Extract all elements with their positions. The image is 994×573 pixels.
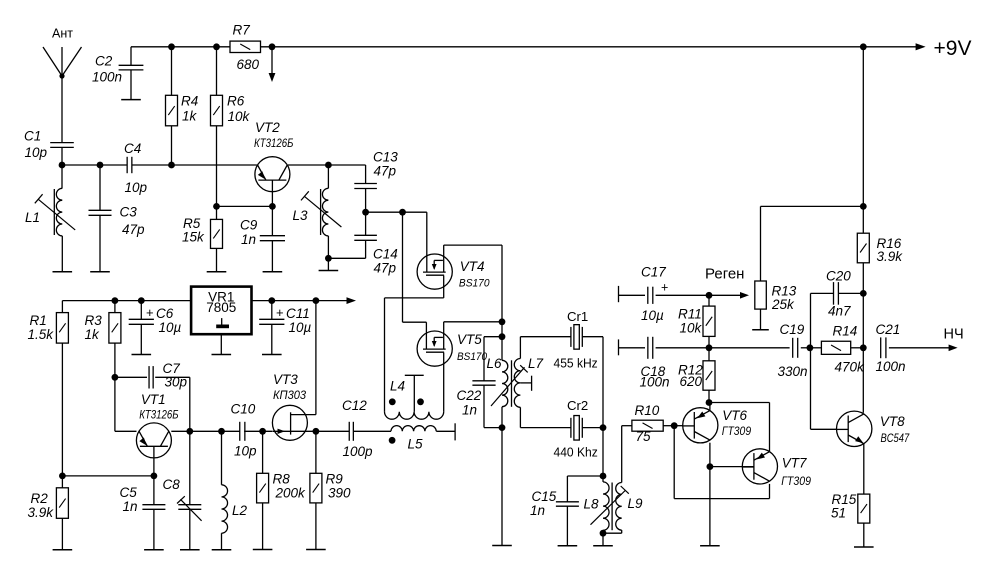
node R14 right — [860, 344, 867, 351]
ground drain column — [492, 545, 512, 547]
wire VT6 collector — [709, 443, 711, 546]
wire VT5 gate feed — [403, 212, 427, 349]
svg-text:1n: 1n — [241, 232, 256, 247]
label НЧ — [944, 327, 964, 343]
resistor R6 — [211, 47, 251, 207]
node +9 column R13 — [860, 203, 867, 210]
ground R15 — [854, 546, 874, 548]
svg-text:1k: 1k — [182, 109, 198, 124]
node C5 top — [151, 473, 158, 480]
capacitor C15 — [530, 489, 579, 546]
svg-text:C22: C22 — [457, 388, 482, 403]
node VT3 drain rail — [313, 297, 320, 304]
svg-text:Реген: Реген — [705, 266, 744, 283]
node C6 top — [138, 297, 145, 304]
wire VT1 collector row — [171, 430, 272, 432]
node C8 column — [186, 428, 193, 435]
transistor VT6 — [683, 408, 752, 443]
svg-text:НЧ: НЧ — [944, 327, 964, 343]
svg-text:КП303: КП303 — [273, 388, 306, 402]
transistor VT3 — [272, 372, 316, 440]
wire VT5 source — [443, 353, 445, 412]
transistor VT2 — [254, 120, 293, 192]
svg-text:VT2: VT2 — [255, 120, 280, 135]
svg-text:R7: R7 — [233, 23, 251, 38]
svg-text:VT6: VT6 — [722, 408, 747, 423]
resistor R2 — [28, 476, 69, 550]
svg-text:680: 680 — [237, 57, 260, 72]
svg-text:L8: L8 — [584, 497, 600, 512]
ground R8 — [253, 549, 273, 551]
node L8/L9 bottom — [600, 530, 607, 537]
wire R13 bottom — [760, 309, 762, 330]
capacitor C21 — [876, 322, 958, 374]
svg-text:3.9k: 3.9k — [28, 505, 55, 520]
svg-text:10p: 10p — [234, 444, 257, 459]
node VT6 emitter — [706, 399, 713, 406]
capacitor C5 — [120, 476, 166, 550]
svg-text:C21: C21 — [876, 322, 901, 337]
ground VR1 — [212, 354, 232, 356]
L8/L9 trimmer arrow — [591, 486, 629, 525]
node rail junction R4 — [168, 43, 175, 50]
ground L3 — [319, 270, 339, 272]
wire Cr2 bottom link — [520, 427, 570, 429]
node L2 tap — [218, 428, 225, 435]
svg-text:Cr2: Cr2 — [567, 398, 588, 413]
ground R2 — [53, 549, 73, 551]
node L3 top — [325, 162, 332, 169]
svg-text:L1: L1 — [25, 210, 40, 225]
svg-text:47p: 47p — [122, 222, 145, 237]
ground C2 — [121, 99, 141, 101]
capacitor C17 — [619, 265, 710, 324]
potentiometer arrow R13 — [709, 292, 749, 299]
node R14 left — [807, 344, 814, 351]
wire VT5 drain — [444, 322, 502, 350]
transistor VT4 — [417, 254, 490, 290]
capacitor C13 — [354, 150, 398, 213]
svg-text:R2: R2 — [31, 491, 49, 506]
ground R9 — [306, 549, 326, 551]
node C9 top — [269, 203, 276, 210]
resistor R5 — [182, 206, 223, 271]
label +9V — [916, 37, 972, 60]
ground L8 — [593, 545, 613, 547]
svg-text:1k: 1k — [85, 327, 101, 342]
node rail junction R6 — [213, 43, 220, 50]
svg-text:10k: 10k — [680, 321, 703, 336]
transistor VT8 — [837, 411, 911, 446]
svg-text:25k: 25k — [771, 297, 795, 312]
wire crystal loop top — [520, 336, 603, 338]
resistor R1 — [28, 313, 69, 476]
node R3/C7/VT1 — [112, 374, 119, 381]
wire VT1 base — [62, 458, 153, 476]
svg-text:Cr1: Cr1 — [567, 309, 588, 324]
wire VT8 emitter — [863, 443, 865, 494]
svg-text:C19: C19 — [780, 322, 805, 337]
svg-text:+: + — [276, 305, 284, 320]
ground C11 — [262, 354, 282, 356]
svg-text:L7: L7 — [528, 356, 544, 371]
svg-text:L6: L6 — [487, 356, 503, 371]
svg-text:L4: L4 — [390, 379, 405, 394]
svg-text:ГТ309: ГТ309 — [781, 474, 811, 488]
svg-text:R8: R8 — [273, 472, 291, 487]
svg-text:C20: C20 — [826, 269, 851, 284]
transformer winding L8 — [584, 476, 610, 546]
svg-text:620: 620 — [680, 374, 703, 389]
capacitor C11 — [259, 301, 311, 355]
wire C7 to C8 column — [189, 377, 191, 431]
transformer winding L6 — [487, 356, 508, 407]
wire R13 top — [761, 206, 864, 281]
node VT6 base — [671, 422, 678, 429]
svg-text:100n: 100n — [876, 359, 906, 374]
ground C8 — [180, 549, 200, 551]
node R5 top — [213, 203, 220, 210]
svg-text:100n: 100n — [92, 70, 122, 85]
capacitor C10 — [231, 402, 258, 459]
wire +9 column — [862, 47, 864, 233]
svg-text:10p: 10p — [25, 145, 48, 160]
transistor VT7 — [742, 449, 811, 488]
resistor R16 — [857, 233, 903, 293]
svg-text:30p: 30p — [165, 375, 188, 390]
capacitor C20 — [811, 269, 864, 319]
svg-text:C3: C3 — [120, 205, 138, 220]
svg-text:1.5k: 1.5k — [28, 327, 55, 342]
capacitor C7 — [115, 361, 190, 390]
svg-text:47p: 47p — [374, 164, 397, 179]
wire C12 to L5 — [354, 430, 391, 432]
trimmer capacitor C8 — [163, 431, 202, 550]
node C20 right — [860, 290, 867, 297]
node R1/R2 — [59, 473, 66, 480]
transistor VT1 — [136, 392, 178, 458]
svg-text:L3: L3 — [293, 208, 309, 223]
transformer winding L4 — [385, 379, 444, 420]
ground L1 — [53, 271, 73, 273]
resistor R14 — [810, 324, 865, 375]
node Cr2 right — [600, 424, 607, 431]
arrow from R7 node down — [269, 47, 276, 82]
wire Cr2 right — [583, 427, 604, 429]
ground L2 — [212, 549, 232, 551]
capacitor C14 — [328, 212, 397, 275]
crystal Cr1 — [554, 309, 598, 371]
crystal Cr2 — [554, 398, 598, 459]
ground C15 — [558, 545, 578, 547]
wire +9V rail — [131, 46, 917, 48]
transformer core L6/L7 — [511, 360, 513, 407]
antenna Ант — [43, 26, 82, 142]
resistor R15 — [831, 492, 870, 547]
node rail junction right column — [860, 43, 867, 50]
resistor R10 — [622, 403, 675, 444]
svg-text:1n: 1n — [530, 503, 545, 518]
transistor VT5 — [417, 331, 488, 366]
svg-text:470k: 470k — [835, 360, 866, 375]
svg-text:ГТ309: ГТ309 — [722, 424, 751, 438]
L6/L7 trimmer arrow — [491, 365, 528, 406]
wire VT4 source — [385, 276, 444, 412]
wire VT2 base node — [217, 192, 273, 207]
wire Cr2 node to C15 — [567, 476, 603, 502]
svg-text:L5: L5 — [408, 437, 424, 452]
svg-text:C1: C1 — [24, 128, 41, 143]
svg-text:VT4: VT4 — [460, 259, 485, 274]
resistor R8 — [257, 431, 306, 549]
resistor R3 — [85, 301, 121, 378]
transformer winding L7 — [514, 337, 543, 428]
resistor R11 — [678, 295, 715, 348]
capacitor C9 — [240, 206, 285, 271]
svg-text:+: + — [146, 305, 154, 320]
svg-text:440 Khz: 440 Khz — [554, 444, 598, 459]
ground R13 — [752, 329, 769, 331]
svg-text:Ант: Ант — [52, 26, 73, 40]
svg-text:VT5: VT5 — [457, 332, 482, 347]
node C13/C14 — [362, 209, 369, 216]
svg-text:C5: C5 — [120, 485, 138, 500]
terminal stub C18 — [618, 339, 620, 355]
svg-text:10µ: 10µ — [641, 308, 664, 323]
svg-text:+: + — [661, 281, 668, 295]
node rail junction R7 out — [269, 43, 276, 50]
L7 tap stub — [520, 376, 531, 391]
svg-text:3.9k: 3.9k — [877, 249, 904, 264]
ground C9 — [263, 271, 283, 273]
svg-text:R11: R11 — [678, 307, 702, 322]
svg-text:L2: L2 — [232, 503, 248, 518]
wire VT6 base lead — [674, 425, 683, 427]
svg-text:R10: R10 — [635, 403, 660, 418]
svg-text:R3: R3 — [85, 313, 103, 328]
ground R5 — [207, 271, 227, 273]
wire drain column — [501, 322, 503, 546]
svg-text:BS170: BS170 — [457, 351, 488, 363]
svg-text:C15: C15 — [532, 489, 557, 504]
svg-text:VT1: VT1 — [141, 392, 166, 407]
capacitor C22 — [457, 337, 503, 428]
terminal stub C17 — [618, 286, 620, 302]
svg-text:75: 75 — [636, 429, 652, 444]
wire VT7 collector — [674, 426, 769, 499]
ground C3 — [90, 271, 110, 273]
svg-text:1n: 1n — [123, 499, 138, 514]
inductor L2 — [222, 431, 248, 550]
svg-text:R9: R9 — [326, 472, 344, 487]
wire VT6 emitter — [709, 403, 711, 410]
node R3 top — [112, 297, 119, 304]
node R4 tap — [168, 162, 175, 169]
transformer winding L9 — [603, 483, 643, 534]
regulator VR1 — [191, 287, 251, 335]
wire VT4 drain — [444, 245, 502, 322]
capacitor C4 — [124, 141, 148, 195]
L5 phase dot — [389, 437, 396, 444]
transformer core L8/L9 — [611, 483, 613, 531]
node R11 top — [706, 292, 713, 299]
svg-text:C4: C4 — [124, 141, 141, 156]
wire VT8 collector column — [862, 293, 864, 412]
svg-text:L9: L9 — [628, 496, 644, 511]
svg-text:КТ3126Б: КТ3126Б — [254, 136, 293, 150]
node R9 top — [313, 428, 320, 435]
ground VT6 — [700, 545, 720, 547]
wire R10 left to L9 — [621, 426, 623, 483]
node C10/VT3 gate — [259, 428, 266, 435]
svg-text:390: 390 — [328, 486, 351, 501]
svg-text:BC547: BC547 — [881, 431, 911, 445]
svg-text:100p: 100p — [343, 444, 374, 459]
svg-text:10k: 10k — [228, 109, 251, 124]
svg-text:C13: C13 — [373, 150, 398, 165]
svg-text:200k: 200k — [275, 486, 307, 501]
ground C5 — [144, 549, 164, 551]
svg-text:C12: C12 — [342, 398, 367, 413]
potentiometer R13 — [755, 281, 797, 312]
wire VT3 row to C12 — [316, 430, 349, 432]
node L3 bottom — [325, 255, 332, 262]
svg-text:C14: C14 — [373, 247, 398, 262]
capacitor C1 — [24, 128, 74, 160]
capacitor C3 — [89, 165, 146, 272]
svg-text:BS170: BS170 — [459, 278, 490, 290]
svg-text:+9V: +9V — [934, 37, 972, 60]
resistor R12 — [678, 348, 715, 403]
svg-text:7805: 7805 — [206, 300, 236, 315]
resistor R9 — [310, 431, 351, 549]
node VT5 drain column — [499, 318, 506, 325]
L4 phase dot 2 — [417, 398, 424, 405]
svg-text:R14: R14 — [833, 324, 858, 339]
inductor L1 — [25, 188, 75, 271]
wire VT8 base column — [811, 293, 837, 429]
capacitor C2 — [92, 47, 143, 100]
svg-text:R4: R4 — [181, 94, 198, 109]
ground C6 — [132, 354, 152, 356]
svg-text:КТ3126Б: КТ3126Б — [139, 408, 178, 422]
node C3 tap — [97, 162, 104, 169]
node IF out — [706, 344, 713, 351]
svg-text:C17: C17 — [641, 265, 666, 280]
L4 centre tap — [405, 375, 424, 412]
svg-text:10µ: 10µ — [289, 320, 312, 335]
L4 phase dot 1 — [389, 398, 396, 405]
resistor R7 — [230, 23, 261, 73]
wire crystal loop right — [602, 337, 604, 476]
wire gate feed VT4 — [366, 212, 427, 272]
wire antenna tank node — [62, 147, 257, 188]
svg-text:51: 51 — [831, 506, 846, 521]
svg-text:C6: C6 — [156, 306, 174, 321]
svg-text:C9: C9 — [240, 218, 258, 233]
svg-text:1n: 1n — [462, 403, 477, 418]
svg-text:C10: C10 — [231, 402, 256, 417]
node VT7 base node — [707, 463, 714, 470]
wire 5V rail left — [62, 301, 191, 313]
svg-text:10µ: 10µ — [159, 320, 182, 335]
wire VT3 drain — [315, 301, 317, 415]
wire R3 to VT1 — [115, 377, 137, 431]
capacitor C6 — [129, 301, 182, 355]
svg-text:R6: R6 — [227, 94, 245, 109]
wire VT7 base — [710, 466, 754, 468]
svg-text:R1: R1 — [30, 313, 47, 328]
node VT4 branch — [399, 209, 406, 216]
node L8 top — [600, 473, 607, 480]
resistor R4 — [166, 47, 199, 165]
inductor L3 — [293, 165, 342, 271]
label Реген — [705, 266, 744, 283]
svg-text:VT3: VT3 — [273, 372, 298, 387]
node C1/L1 — [59, 162, 66, 169]
svg-text:VT7: VT7 — [782, 456, 807, 471]
svg-text:330n: 330n — [778, 364, 808, 379]
node C11 top — [268, 297, 275, 304]
wire VT7 emitter — [709, 403, 770, 452]
inductor L5 — [391, 423, 455, 451]
svg-text:455 kHz: 455 kHz — [554, 356, 598, 371]
svg-text:10p: 10p — [125, 180, 148, 195]
node C22 bottom — [499, 424, 506, 431]
svg-text:C8: C8 — [163, 477, 181, 492]
capacitor C12 — [342, 398, 373, 459]
svg-text:C2: C2 — [95, 54, 113, 69]
wire VR1 ground — [220, 334, 222, 354]
capacitor C19 — [778, 322, 810, 379]
wire 5V rail right — [252, 297, 357, 304]
svg-text:15k: 15k — [182, 230, 205, 245]
wire VT2 collector to L3/C13 — [288, 164, 366, 166]
svg-text:VT8: VT8 — [880, 414, 905, 429]
capacitor C18 — [619, 337, 790, 390]
svg-text:100n: 100n — [640, 375, 670, 390]
svg-text:4n7: 4n7 — [828, 304, 851, 319]
svg-text:C11: C11 — [286, 306, 310, 321]
node L6 top — [499, 333, 506, 340]
svg-text:47p: 47p — [374, 261, 397, 276]
